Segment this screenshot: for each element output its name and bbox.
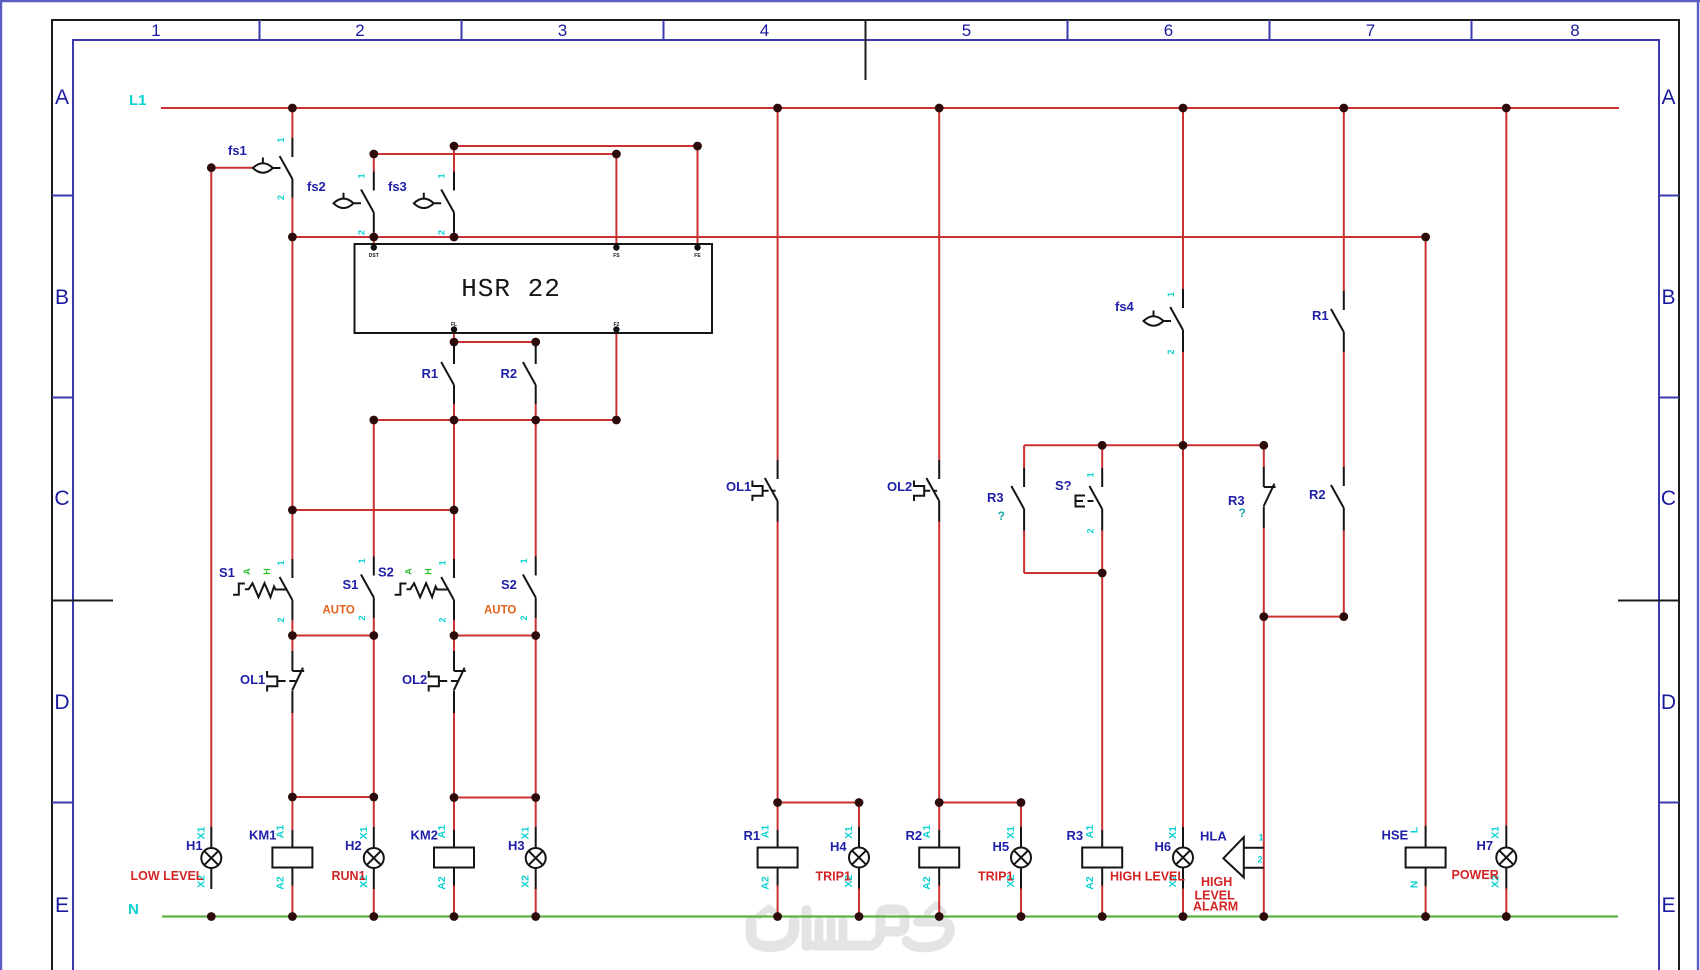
svg-text:A2: A2 <box>921 876 933 890</box>
svg-text:1: 1 <box>357 558 367 563</box>
svg-text:A1: A1 <box>274 825 286 839</box>
device HSE <box>1382 826 1446 888</box>
svg-text:FE: FE <box>694 253 701 259</box>
junction dots on N rail <box>207 912 1511 921</box>
svg-text:fs1: fs1 <box>228 143 247 158</box>
lamp H7 (power) <box>1452 826 1517 889</box>
svg-text:L: L <box>1409 826 1421 833</box>
relay contact R2 (under U1) <box>501 344 536 404</box>
svg-text:H: H <box>262 568 272 575</box>
contactor coil KM2 <box>411 825 475 890</box>
svg-text:S1: S1 <box>343 577 359 592</box>
junction dots on control bus and fs links <box>207 142 1430 242</box>
svg-text:1: 1 <box>437 173 447 178</box>
svg-text:X1: X1 <box>520 826 532 839</box>
svg-text:TRIP1: TRIP1 <box>978 870 1013 884</box>
svg-text:A2: A2 <box>1084 876 1096 890</box>
svg-text:2: 2 <box>1258 855 1263 865</box>
svg-text:A2: A2 <box>274 876 286 890</box>
svg-text:1: 1 <box>1086 472 1096 477</box>
svg-text:2: 2 <box>276 617 286 622</box>
svg-text:HSR 22: HSR 22 <box>461 274 561 304</box>
wire fs4 column <box>1182 108 1184 445</box>
svg-text:L1: L1 <box>129 92 147 109</box>
relay contact R3 (NO) <box>987 468 1024 531</box>
svg-text:A1: A1 <box>760 825 772 839</box>
wire S1auto column <box>373 420 375 917</box>
svg-text:A: A <box>1661 86 1675 109</box>
svg-text:5: 5 <box>962 21 971 40</box>
svg-text:R3: R3 <box>1067 828 1084 843</box>
svg-text:KM1: KM1 <box>249 828 276 843</box>
junction dots below U1 <box>369 338 620 425</box>
svg-text:X2: X2 <box>520 875 532 888</box>
svg-text:1: 1 <box>1259 833 1264 843</box>
svg-text:POWER: POWER <box>1452 868 1499 882</box>
svg-text:A2: A2 <box>760 876 772 890</box>
svg-text:1: 1 <box>1166 292 1176 297</box>
svg-text:2: 2 <box>357 230 367 235</box>
svg-text:H7: H7 <box>1477 838 1494 853</box>
svg-text:2: 2 <box>437 230 447 235</box>
wire R3nc branch <box>1263 445 1265 616</box>
svg-text:2: 2 <box>355 21 364 40</box>
svg-text:H6: H6 <box>1155 839 1172 854</box>
svg-text:3: 3 <box>558 21 567 40</box>
svg-text:HIGH: HIGH <box>1201 875 1232 889</box>
svg-text:1: 1 <box>438 560 448 565</box>
lamp H2 (run1) <box>332 826 384 889</box>
lamp H6 (high level) <box>1110 826 1193 889</box>
overload NC contact OL1 <box>240 651 304 713</box>
wire bus2 (below U1) <box>374 419 617 421</box>
svg-text:C: C <box>1661 487 1676 510</box>
junction dots row C right <box>1098 441 1348 621</box>
float switch fs2 <box>307 172 374 236</box>
svg-text:B: B <box>1661 286 1675 309</box>
svg-text:X1: X1 <box>195 826 207 839</box>
wire fs3 top link <box>454 146 698 244</box>
svg-text:A1: A1 <box>921 825 933 839</box>
svg-text:R1: R1 <box>1312 308 1329 323</box>
svg-text:H4: H4 <box>830 839 847 854</box>
junction dots on L1 <box>288 104 1511 113</box>
svg-text:A1: A1 <box>436 825 448 839</box>
float switch fs1 <box>228 137 292 200</box>
svg-text:R2: R2 <box>1309 487 1326 502</box>
svg-text:ALARM: ALARM <box>1193 900 1238 914</box>
wire R3/S? bottom link <box>1024 572 1102 574</box>
svg-text:C: C <box>54 487 69 510</box>
wire fs3 stubs <box>453 146 455 237</box>
wire R2 contact bottom <box>535 404 537 420</box>
wire auto link 1 <box>292 635 373 637</box>
wire fs2 top link <box>374 154 617 244</box>
svg-text:H5: H5 <box>993 839 1010 854</box>
relay contact R1 (NO, top right) <box>1312 291 1344 352</box>
alarm horn HLA <box>1193 829 1264 914</box>
svg-text:R2: R2 <box>906 828 923 843</box>
relay coil R2 <box>906 825 960 890</box>
relay coil R1 <box>744 825 798 890</box>
selector switch S2 <box>378 559 454 623</box>
svg-text:2: 2 <box>519 615 529 620</box>
svg-text:fs4: fs4 <box>1115 299 1135 314</box>
svg-text:HLA: HLA <box>1200 829 1227 844</box>
wire S2auto column <box>535 420 537 917</box>
net N rail (green) <box>128 901 1618 918</box>
svg-text:N: N <box>128 901 139 918</box>
svg-text:1: 1 <box>276 560 286 565</box>
svg-text:A1: A1 <box>1084 825 1096 839</box>
wire control bus (row B) <box>292 236 1425 238</box>
svg-text:KM2: KM2 <box>411 828 438 843</box>
wire fs1 float to H1 column <box>211 168 253 827</box>
wire link R1-R2 contacts top <box>454 342 536 344</box>
svg-text:AUTO: AUTO <box>484 605 516 617</box>
svg-text:R1: R1 <box>744 828 761 843</box>
svg-text:HSE: HSE <box>1382 828 1409 843</box>
svg-text:OL2: OL2 <box>887 479 912 494</box>
wire HSE column <box>1425 237 1427 917</box>
relay contact R2 (NO, right) <box>1309 467 1344 531</box>
svg-text:1: 1 <box>519 558 529 563</box>
svg-text:A: A <box>404 568 414 575</box>
wire R1 contact bottom <box>453 404 455 420</box>
wire R1-R2 chain column <box>1343 108 1345 617</box>
svg-text:X1: X1 <box>358 826 370 839</box>
wire KM1-H2 link <box>292 796 373 798</box>
svg-text:R1: R1 <box>422 366 439 381</box>
wire S2 column <box>453 420 455 917</box>
relay coil R3 <box>1067 825 1123 890</box>
svg-text:OL2: OL2 <box>402 672 427 687</box>
svg-text:RUN1: RUN1 <box>332 869 366 883</box>
svg-text:1: 1 <box>357 173 367 178</box>
svg-text:2: 2 <box>1166 349 1176 354</box>
svg-text:X1: X1 <box>1167 826 1179 839</box>
svg-text:2: 2 <box>357 615 367 620</box>
svg-text:HIGH LEVEL: HIGH LEVEL <box>1110 870 1185 884</box>
overload NC contact OL2 <box>402 651 466 713</box>
lamp H5 (trip1) <box>978 826 1031 889</box>
wire alarm link <box>1264 616 1344 618</box>
svg-text:1: 1 <box>276 137 286 142</box>
contactor coil KM1 <box>249 825 312 890</box>
wire H7 column (power) <box>1505 108 1507 917</box>
svg-text:A: A <box>242 568 252 575</box>
overload NO contact OL2 <box>887 460 939 522</box>
svg-text:2: 2 <box>276 195 286 200</box>
svg-text:D: D <box>54 691 69 714</box>
svg-text:AUTO: AUTO <box>323 605 355 617</box>
svg-text:X1: X1 <box>843 826 855 839</box>
svg-text:?: ? <box>998 509 1005 523</box>
svg-text:OL1: OL1 <box>726 479 751 494</box>
svg-text:R2: R2 <box>501 366 518 381</box>
wire H6 column <box>1182 445 1184 916</box>
svg-text:S2: S2 <box>501 577 517 592</box>
svg-text:F2: F2 <box>613 322 619 328</box>
auto contact S1 <box>323 557 374 621</box>
float switch fs4 <box>1115 289 1183 355</box>
svg-text:FS: FS <box>613 253 620 259</box>
svg-text:X1: X1 <box>1005 826 1017 839</box>
relay contact R1 (under U1) <box>422 344 455 404</box>
wire fs1 bottom to bus <box>291 198 293 238</box>
wire H4 bottom <box>858 889 860 917</box>
svg-text:?: ? <box>1239 506 1246 520</box>
pushbutton S? <box>1055 468 1102 534</box>
svg-text:DST: DST <box>369 253 379 259</box>
wire S-link row C <box>292 509 454 511</box>
wire OL1 column (L1 to R1 coil) <box>777 108 779 917</box>
svg-text:8: 8 <box>1570 21 1579 40</box>
wire S1 column <box>291 237 293 917</box>
wire H5 bottom <box>1020 889 1022 917</box>
wire HLA column <box>1263 617 1265 917</box>
lamp H3 <box>508 826 546 889</box>
wire R2coil-H5 link <box>939 803 1021 828</box>
wire R3 contact branch <box>1023 445 1025 573</box>
float switch fs3 <box>388 172 454 236</box>
wire KM2-H3 link <box>454 797 536 799</box>
junction dots selector rows <box>288 506 540 640</box>
svg-text:S2: S2 <box>378 565 394 580</box>
svg-text:N: N <box>1409 881 1421 889</box>
svg-text:6: 6 <box>1164 21 1173 40</box>
wire S? contact branch <box>1101 445 1103 573</box>
svg-text:R3: R3 <box>987 490 1004 505</box>
wire fs1 branch: L1 down to fs1 <box>291 108 293 138</box>
svg-text:7: 7 <box>1366 21 1375 40</box>
selector switch S1 <box>219 559 292 623</box>
svg-text:D: D <box>1661 691 1676 714</box>
lamp H1 (low level) <box>131 826 222 889</box>
wire R1coil-H4 link <box>778 803 859 828</box>
svg-text:LOW LEVEL: LOW LEVEL <box>131 869 204 883</box>
level relay U1 HSR 22 <box>355 244 713 333</box>
svg-text:OL1: OL1 <box>240 672 265 687</box>
svg-text:E: E <box>1661 894 1675 917</box>
svg-text:E: E <box>55 894 69 917</box>
wire fs2 stubs <box>373 154 375 244</box>
svg-text:TRIP1: TRIP1 <box>816 870 851 884</box>
overload NO contact OL1 <box>726 460 778 522</box>
junction dots coil row <box>288 793 1025 807</box>
svg-text:FL: FL <box>451 322 457 328</box>
svg-text:fs2: fs2 <box>307 179 326 194</box>
svg-text:1: 1 <box>151 21 160 40</box>
svg-text:fs3: fs3 <box>388 179 407 194</box>
wire OL2 column (L1 to R2 coil) <box>938 108 940 917</box>
svg-text:2: 2 <box>1086 528 1096 533</box>
svg-text:B: B <box>55 286 69 309</box>
relay contact R3 (NC) <box>1228 467 1276 528</box>
svg-text:H: H <box>423 568 433 575</box>
svg-text:S1: S1 <box>219 565 235 580</box>
net L1 rail <box>129 92 1619 109</box>
lamp H4 (trip1) <box>816 826 870 889</box>
auto contact S2 <box>484 557 536 621</box>
svg-text:2: 2 <box>438 617 448 622</box>
svg-text:A2: A2 <box>436 876 448 890</box>
wire U1 bottom pin FL <box>453 333 455 344</box>
svg-text:A: A <box>55 86 69 109</box>
svg-text:X1: X1 <box>1489 826 1501 839</box>
wire node row C link (fs4 out) <box>1024 444 1264 446</box>
wire R3 coil column <box>1101 573 1103 917</box>
svg-text:S?: S? <box>1055 478 1072 493</box>
svg-text:4: 4 <box>760 21 769 40</box>
wire auto link 2 <box>454 635 536 637</box>
wire U1 bottom pin to bus2 <box>615 333 617 420</box>
